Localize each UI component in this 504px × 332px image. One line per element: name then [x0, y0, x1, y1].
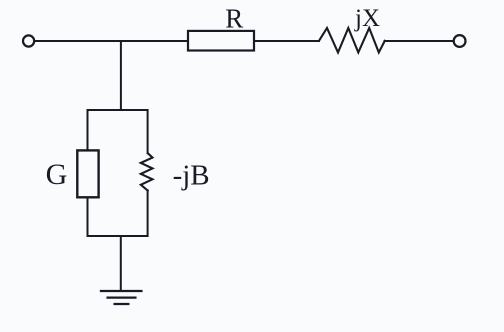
- wire: [254, 40, 319, 42]
- svg-text:jX: jX: [354, 5, 380, 32]
- svg-text:R: R: [225, 4, 243, 34]
- wire: [35, 40, 188, 42]
- wire junction drop: [120, 41, 122, 110]
- wire shunt loop bottom: [88, 191, 148, 237]
- wire ground stem: [120, 236, 122, 291]
- conductance G box: [77, 150, 98, 197]
- terminal right: [454, 35, 466, 47]
- terminal left: [23, 35, 34, 46]
- svg-text:G: G: [46, 158, 68, 191]
- reactance jX: [319, 28, 385, 53]
- resistor R: [188, 31, 254, 51]
- wire: [385, 40, 454, 42]
- wire shunt loop top: [88, 110, 148, 153]
- svg-text:-jB: -jB: [173, 160, 210, 192]
- susceptance -jB zigzag: [141, 153, 153, 190]
- ground: [101, 291, 141, 304]
